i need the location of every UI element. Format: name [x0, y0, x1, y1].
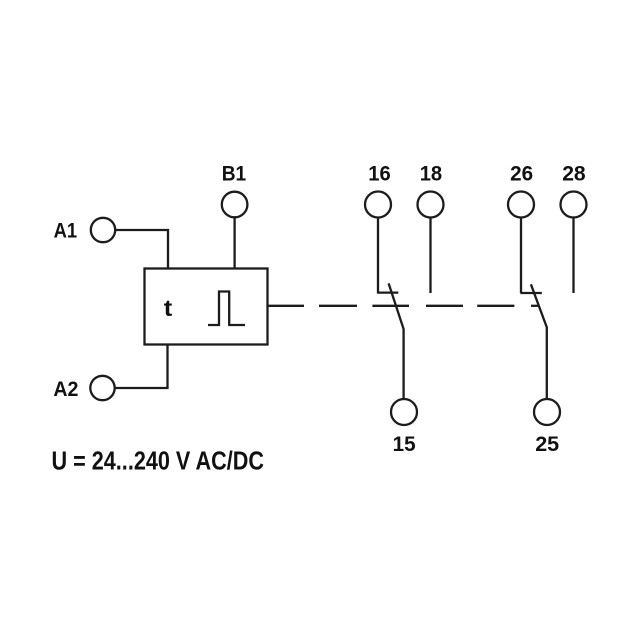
svg-text:25: 25 — [535, 432, 559, 456]
svg-text:18: 18 — [420, 162, 443, 186]
svg-text:15: 15 — [393, 432, 416, 456]
timer box U1 — [145, 269, 268, 345]
svg-text:A2: A2 — [53, 377, 78, 401]
svg-text:16: 16 — [368, 162, 391, 186]
terminal A2 — [53, 376, 114, 401]
terminal 25 — [534, 399, 560, 456]
changeover contact armature 15-16 — [389, 283, 404, 399]
svg-text:28: 28 — [562, 162, 586, 186]
svg-text:26: 26 — [510, 162, 533, 186]
terminal A1 — [54, 218, 116, 243]
wire A2 to timer box — [115, 345, 168, 388]
wire 28 fixed contact — [572, 218, 574, 294]
terminal 16 — [365, 162, 391, 218]
wire 26 fixed contact — [520, 218, 522, 294]
wire A1 to timer box — [115, 230, 168, 268]
wire B1 to timer box — [233, 217, 235, 268]
terminal 18 — [418, 162, 444, 218]
wire 18 fixed contact — [429, 218, 431, 294]
terminal B1 — [222, 162, 248, 218]
timer function label t — [164, 295, 173, 321]
terminal 28 — [561, 162, 587, 218]
changeover contact armature 25-26 — [531, 284, 547, 399]
contact tick 26 — [520, 292, 541, 294]
dashed mechanical linkage line — [268, 305, 540, 307]
terminal 15 — [391, 399, 417, 456]
svg-text:B1: B1 — [222, 162, 247, 186]
wire 16 fixed contact — [377, 218, 379, 294]
pulse symbol inside timer box — [208, 292, 245, 326]
contact tick 16 — [377, 291, 398, 293]
svg-text:A1: A1 — [54, 219, 78, 243]
svg-text:t: t — [164, 295, 173, 321]
supply voltage rating label — [52, 448, 265, 476]
terminal 26 — [508, 162, 534, 218]
svg-text:U = 24...240 V AC/DC: U = 24...240 V AC/DC — [52, 448, 265, 476]
